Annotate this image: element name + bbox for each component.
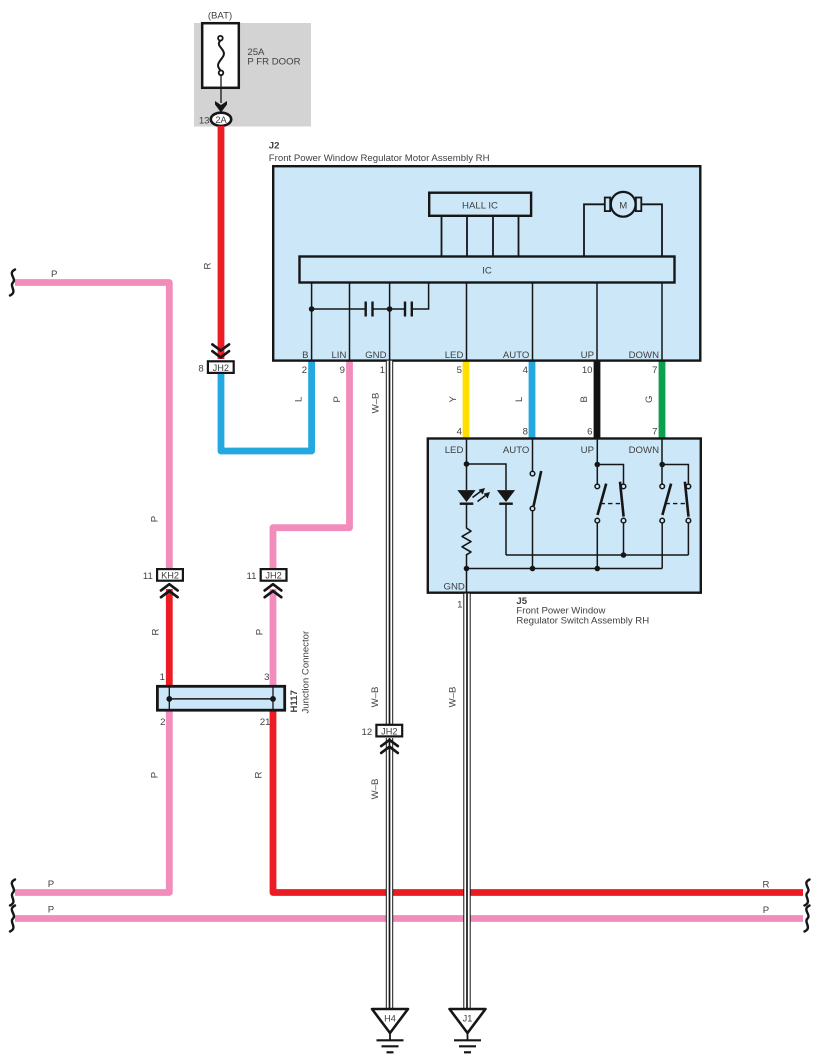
J2 pin number 9 [340,365,345,376]
svg-text:B: B [579,396,590,402]
svg-text:L: L [514,396,525,402]
svg-text:P: P [150,772,161,778]
pin wire AUTO inside J2 [532,283,534,361]
capacitor C1 [366,302,373,317]
fuse element symbol [218,36,224,75]
label R between KH2 and H117 [151,628,162,635]
DOWN switch wires [662,439,688,569]
pin wire DOWN inside J2 [661,283,663,361]
H117 name label [289,690,300,712]
svg-text:P: P [48,905,54,916]
J2 bottom pin name labels [302,350,659,361]
J5 top pin name labels [445,445,659,456]
svg-text:UP: UP [581,445,594,456]
J2 pin number 4 [523,365,529,376]
H117 pin number 2 [160,717,165,728]
J2 pin number 7 [652,365,657,376]
pin 13 label [199,115,210,126]
resistor R1 [462,528,471,555]
J2 component box Front Power Window Regulator Motor Assembly RH [273,166,700,360]
svg-text:Junction Connector: Junction Connector [301,630,312,713]
node GND bus at LED [464,566,470,572]
J2 pin number 1 [380,365,385,376]
J5 pin number 6 [587,426,592,437]
label W-B right wire [448,687,459,708]
LED branch wires [467,439,507,593]
wire G DOWN pin 7 to pin 7 [659,360,666,438]
diode D2 [497,490,515,504]
IC box U-ic [300,257,675,283]
svg-text:LED: LED [445,445,464,456]
label W-B below JH2-12 [370,779,381,800]
fuse value label 25A / P FR DOOR [247,47,300,68]
svg-text:H117: H117 [289,690,300,712]
wire P from J2 pin 9 to JH2-11 [273,360,350,569]
svg-text:P: P [255,629,266,635]
node on upper bus [621,552,627,558]
motor M1 wires [584,204,662,256]
svg-text:J1: J1 [463,1014,473,1024]
node GND bus at UP [595,566,601,572]
label (BAT) [208,11,232,22]
bus wire upper inside J5 [506,554,688,556]
label P on left vertical pink wire [150,516,161,522]
capacitor branch wire [312,283,429,310]
LED D1 emission arrows [473,488,491,502]
label 8 at JH2 [198,363,203,374]
label W-B upper [371,393,382,414]
label P at right of long wire [763,905,769,916]
motor M1 [605,192,642,217]
svg-text:L: L [294,396,305,402]
svg-text:1: 1 [160,672,165,683]
svg-text:12: 12 [362,727,373,738]
J2 pin number 2 [302,365,307,376]
connector JH2 no.12 [376,725,402,753]
label B on UP wire [579,396,590,402]
wire L AUTO pin 4 to pin 8 [529,360,536,438]
wire Y LED pin 5 to pin 4 [463,360,470,438]
svg-text:P: P [48,879,54,890]
svg-text:JH2: JH2 [213,363,229,373]
connector JH2 no.8 [208,344,234,373]
svg-text:3: 3 [264,672,269,683]
svg-text:IC: IC [482,266,492,277]
svg-text:11: 11 [247,571,257,582]
node on B pin [309,306,315,312]
J5 component box Front Power Window Regulator Switch Assembly RH [428,439,701,593]
svg-text:10: 10 [582,365,593,376]
svg-text:1: 1 [457,600,462,611]
AUTO switch SW1 [530,471,541,511]
pin wire GND inside J2 [389,283,391,361]
svg-text:J2: J2 [269,141,280,152]
svg-text:21: 21 [260,717,271,728]
UP switch wires [597,439,623,569]
svg-text:7: 7 [652,365,657,376]
label R on fuse wire [203,262,214,269]
H117 pin number 1 [160,672,165,683]
svg-text:H4: H4 [384,1014,396,1024]
svg-text:P: P [150,516,161,522]
AUTO switch wires [532,439,534,569]
svg-text:HALL IC: HALL IC [462,200,498,211]
label P between JH2 and H117 [255,629,266,635]
svg-text:Front Power Window Regulator M: Front Power Window Regulator Motor Assem… [269,153,490,164]
label 11 at KH2 [143,571,153,582]
svg-text:W–B: W–B [448,687,459,708]
svg-text:W–B: W–B [370,779,381,800]
svg-text:JH2: JH2 [381,726,397,736]
H117 internal pass-through wires [169,688,273,710]
pin wire LIN inside J2 [349,283,351,361]
terminal arrow [215,101,227,113]
svg-text:R: R [254,771,265,778]
squiggle left end of P wire [10,270,15,296]
connector 2A oval [211,113,231,126]
svg-text:UP: UP [581,350,594,361]
node LED branch [464,461,470,467]
svg-text:P: P [763,905,769,916]
wire B UP pin 10 to pin 6 [594,360,601,438]
LED D1 illumination [457,490,475,504]
svg-text:DOWN: DOWN [629,445,659,456]
svg-text:1: 1 [380,365,385,376]
wire R from KH2-11 to H117 pin 1 [166,589,173,687]
wire P from JH2-11 to H117 pin 3 [270,589,277,687]
fuse 25A P FR DOOR box [202,23,239,88]
svg-text:Regulator Switch Assembly RH: Regulator Switch Assembly RH [516,615,649,626]
label Y [448,396,459,403]
wire P from H117 pin 2 to left edge [15,710,169,893]
label 11 at JH2 [247,571,257,582]
squiggle right end of R wire [805,880,810,906]
label P near left edge [51,269,57,280]
HALL IC box U-hall [429,193,531,216]
squiggle left end of long P wire [10,906,15,932]
H117 junction connector box [157,686,284,710]
label 12 at JH2 [362,727,373,738]
J2 pin number 10 [582,365,593,376]
svg-text:LED: LED [445,350,464,361]
J5 title label [516,596,649,627]
svg-text:2A: 2A [215,115,227,125]
J5 pin number 7 [652,426,657,437]
wire P from left edge to KH2-11 [15,283,169,569]
J5 GND pin number 1 [457,600,462,611]
wire R from fuse to JH2 [218,126,225,359]
svg-text:13: 13 [199,115,210,126]
svg-text:G: G [644,396,655,403]
connector JH2 no.11 [261,569,287,597]
J5 pin number 8 [523,426,528,437]
UP switch SW2 contacts [595,482,626,523]
wire fuse to terminal [220,75,222,103]
squiggle right end of long P wire [805,906,810,932]
pin wire UP inside J2 [596,283,598,361]
svg-text:6: 6 [587,426,592,437]
svg-text:2: 2 [160,717,165,728]
svg-text:P: P [332,396,343,402]
label G on DOWN wire [644,396,655,403]
node H117 pin21 side [270,696,276,702]
svg-text:R: R [151,628,162,635]
svg-text:DOWN: DOWN [629,350,659,361]
svg-text:R: R [203,262,214,269]
fuse block shaded area [194,23,311,127]
svg-text:W–B: W–B [370,687,381,708]
wire W-B from JH2-12 to ground H4 [386,738,393,1010]
bus wire lower GND inside J5 [467,568,663,570]
svg-text:W–B: W–B [371,393,382,414]
svg-text:(BAT): (BAT) [208,11,232,22]
J5 pin number 4 [457,426,463,437]
label L on AUTO wire [514,396,525,402]
svg-text:M: M [619,200,627,211]
wire R from H117 pin 21 to right edge [273,710,803,893]
svg-text:AUTO: AUTO [503,350,529,361]
label R at right end [763,879,770,890]
svg-text:R: R [763,879,770,890]
J2 title label [269,141,490,164]
svg-text:11: 11 [143,571,153,582]
ground J1 [450,1009,486,1052]
DOWN switch SW3 contacts [660,482,691,523]
svg-text:8: 8 [523,426,528,437]
J5 GND pin label [444,582,465,593]
wire W-B from J5 GND pin 1 to ground J1 [463,594,470,1010]
H117 pin number 3 [264,672,269,683]
svg-text:LIN: LIN [331,350,346,361]
squiggle left end of lower P wire [10,880,15,906]
label R on wire below H117 [254,771,265,778]
node UP branch [595,462,601,468]
svg-text:GND: GND [444,582,465,593]
svg-text:8: 8 [198,363,203,374]
pin wire LED inside J2 [466,283,468,361]
svg-text:4: 4 [523,365,529,376]
svg-text:GND: GND [365,350,386,361]
label P on wire below H117 [150,772,161,778]
node on GND pin [387,306,393,312]
svg-text:KH2: KH2 [161,571,179,581]
label L on blue wire [294,396,305,402]
H117 Junction Connector label [301,630,312,713]
capacitor C2 [405,302,412,317]
connector KH2 no.11 [157,569,183,597]
svg-text:B: B [302,350,308,361]
ground H4 [372,1009,408,1052]
svg-text:JH2: JH2 [265,571,281,581]
wire W-B from J2 GND pin 1 to JH2-12 [386,361,393,724]
wire L from JH2-8 to J2 pin 2 [221,360,312,451]
H117 pin number 21 [260,717,271,728]
label P at left end of lower wire [48,879,54,890]
wire P long bottom wire [15,915,803,922]
node DOWN branch [659,462,665,468]
svg-text:7: 7 [652,426,657,437]
node GND bus at AUTO [530,566,536,572]
svg-text:5: 5 [457,365,462,376]
label P on LIN wire [332,396,343,402]
svg-text:P FR DOOR: P FR DOOR [247,57,300,68]
svg-text:Y: Y [448,396,459,403]
svg-text:9: 9 [340,365,345,376]
svg-text:P: P [51,269,57,280]
svg-text:AUTO: AUTO [503,445,529,456]
label P at left of long wire [48,905,54,916]
svg-text:2: 2 [302,365,307,376]
pin wire B inside J2 [311,283,313,361]
J2 pin number 5 [457,365,462,376]
label W-B above JH2-12 [370,687,381,708]
svg-text:4: 4 [457,426,463,437]
node H117 pin1 side [166,696,172,702]
hall ic pin wires [442,217,519,256]
